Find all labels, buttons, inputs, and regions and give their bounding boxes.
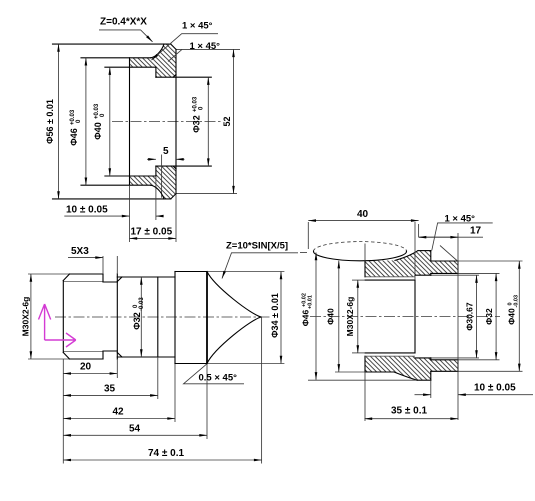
svg-text:-0.03: -0.03 bbox=[139, 297, 145, 311]
OD bottom right section + ext bbox=[431, 370, 458, 372]
chamfer left top bbox=[63, 274, 69, 281]
dim 5 stubs bbox=[147, 158, 156, 160]
svg-text:74 ± 0.1: 74 ± 0.1 bbox=[148, 448, 185, 459]
groove ext up left bbox=[102, 256, 104, 274]
dim phi40 text bbox=[93, 103, 106, 140]
right face bbox=[175, 49, 177, 193]
bore step face bbox=[155, 67, 157, 176]
groove left wall bbox=[102, 274, 104, 359]
flare bottom curve bbox=[394, 372, 417, 380]
OD46 bottom edge bbox=[81, 184, 151, 186]
dim M30 line bbox=[30, 274, 32, 359]
OD46 top edge bbox=[81, 57, 151, 59]
right face bbox=[457, 261, 459, 371]
svg-text:Φ40: Φ40 bbox=[326, 308, 336, 325]
dim phi32 v3 line bbox=[495, 273, 497, 359]
svg-text:42: 42 bbox=[113, 407, 125, 418]
svg-text:1 × 45°: 1 × 45° bbox=[190, 41, 221, 52]
dim phi34 line bbox=[280, 272, 282, 364]
right face ext down bbox=[175, 194, 177, 242]
rightface52 ext bottom bbox=[176, 193, 237, 195]
dim 35 v3 bbox=[365, 418, 459, 420]
groove right wall / section boundary bbox=[116, 274, 118, 359]
OD56 top edge bbox=[53, 43, 171, 45]
OD top right section + ext bbox=[431, 260, 458, 262]
svg-text:Φ40: Φ40 bbox=[93, 122, 103, 139]
svg-text:Φ32: Φ32 bbox=[192, 115, 202, 132]
bore40 bottom bbox=[105, 175, 156, 177]
bore chamfer bottom bbox=[173, 166, 176, 169]
centerline view2 bbox=[55, 316, 272, 318]
svg-text:20: 20 bbox=[80, 362, 92, 373]
dim M30 v3 text bbox=[345, 297, 355, 337]
ext 10dim down x430.8 bbox=[430, 380, 432, 398]
bore 32 top + ext right bbox=[431, 272, 458, 274]
svg-text:54: 54 bbox=[129, 423, 141, 434]
boundary x157.8 bbox=[157, 277, 159, 357]
chamfer bottom-right bbox=[171, 194, 176, 199]
thread major thin top bbox=[365, 276, 415, 278]
svg-text:10 ± 0.05: 10 ± 0.05 bbox=[66, 205, 108, 216]
dim phi30.67 text bbox=[465, 302, 475, 331]
svg-text:52: 52 bbox=[222, 116, 232, 126]
hatch upper wall v3 bbox=[365, 251, 458, 277]
bore chamfer top bbox=[173, 75, 176, 78]
dim 40 ext left bbox=[307, 222, 309, 249]
dim phi30.67 line bbox=[476, 275, 478, 358]
note 1x45 lower leader bbox=[168, 49, 182, 61]
dim phi40-0.03 line bbox=[518, 261, 520, 371]
svg-text:5: 5 bbox=[163, 146, 169, 157]
dim phi32 text bbox=[192, 96, 205, 133]
dim phi34 text bbox=[270, 293, 280, 338]
dim 35 bbox=[63, 394, 158, 396]
dim 10 line bbox=[64, 215, 129, 217]
thread major thin bottom bbox=[365, 355, 415, 357]
svg-text:Φ32: Φ32 bbox=[132, 312, 142, 329]
dim phi32 line bbox=[207, 77, 209, 166]
left face ext down bbox=[129, 185, 131, 242]
hatch lower wall v3 bbox=[365, 356, 458, 380]
flare lip ellipse dashed top bbox=[314, 242, 407, 252]
dim 17 line bbox=[130, 237, 177, 239]
svg-text:M30X2-6g: M30X2-6g bbox=[21, 297, 31, 337]
body left face ext bbox=[364, 244, 366, 422]
dim phi40 v3 text bbox=[326, 308, 336, 325]
phi34 OD bottom + ext right bbox=[175, 363, 207, 365]
ext left face down bbox=[62, 359, 64, 464]
bore32 bottom bbox=[156, 165, 211, 167]
thread minor top bbox=[63, 281, 103, 283]
flare outer curve bbox=[395, 251, 418, 261]
thread OD top (with M30 ext left) bbox=[70, 273, 104, 275]
svg-text:Φ34 ± 0.01: Φ34 ± 0.01 bbox=[270, 293, 280, 338]
svg-text:Φ56 ± 0.01: Φ56 ± 0.01 bbox=[45, 99, 55, 144]
dim M30 v3 line bbox=[357, 280, 359, 353]
dim phi46 text bbox=[69, 109, 82, 146]
svg-text:17: 17 bbox=[470, 226, 482, 237]
svg-text:Φ30.67: Φ30.67 bbox=[465, 302, 475, 331]
dim phi32s line bbox=[140, 277, 142, 357]
dim 17 line bbox=[419, 236, 483, 238]
dim 42 bbox=[63, 418, 175, 420]
dim M30 text bbox=[21, 297, 31, 337]
collar step top bbox=[430, 251, 432, 261]
parabola bottom bbox=[151, 185, 165, 199]
flare lip ellipse solid bottom bbox=[314, 251, 407, 261]
OD56 bottom edge bbox=[53, 198, 171, 200]
thread crest bottom + ext left bbox=[365, 352, 415, 354]
dim 10 stub bbox=[156, 215, 163, 217]
bore40 top bbox=[105, 66, 156, 68]
rightface52 ext top bbox=[176, 48, 240, 50]
note Zsin leader bbox=[222, 253, 298, 279]
groove ext line x161.6 bbox=[161, 155, 163, 198]
chamfer top-right bbox=[171, 44, 176, 49]
svg-text:1 × 45°: 1 × 45° bbox=[182, 21, 213, 32]
svg-text:Φ32: Φ32 bbox=[484, 308, 494, 325]
note 1x45 upper leader bbox=[152, 34, 219, 60]
svg-text:Φ46: Φ46 bbox=[69, 128, 79, 145]
svg-text:40: 40 bbox=[357, 209, 369, 220]
step face x175 bbox=[174, 272, 176, 364]
dim phi40 v3 line bbox=[338, 261, 340, 372]
dim phi46 v3 ext bottom bbox=[308, 379, 417, 381]
nose base line bbox=[206, 272, 208, 364]
collar bottom edge bbox=[417, 379, 431, 381]
collar top edge bbox=[418, 250, 431, 252]
svg-text:Z=10*SIN[X/5]: Z=10*SIN[X/5] bbox=[226, 241, 288, 252]
centerline view1 bbox=[112, 121, 222, 123]
bore step top bbox=[430, 273, 432, 275]
phi32 section OD bottom bbox=[117, 356, 175, 358]
ext 35 down bbox=[157, 357, 159, 399]
svg-text:5X3: 5X3 bbox=[71, 246, 89, 257]
body left face bbox=[364, 261, 366, 372]
step ext down bbox=[155, 176, 157, 220]
shaft left face bbox=[62, 281, 64, 353]
dim phi56 line bbox=[58, 44, 60, 199]
magenta axis icon bbox=[39, 304, 76, 347]
parabola top bbox=[151, 44, 165, 58]
dim 10 v3 bbox=[415, 394, 431, 396]
note Z leader bbox=[99, 30, 153, 42]
dim 52 line bbox=[233, 49, 235, 193]
svg-text:-0.03: -0.03 bbox=[513, 295, 519, 308]
ext 74 from tip down bbox=[261, 317, 263, 464]
dim 74 bbox=[63, 459, 261, 461]
bore 30.67 bottom + ext right bbox=[415, 357, 431, 359]
svg-text:M30X2-6g: M30X2-6g bbox=[345, 297, 355, 337]
bottom edge body bbox=[365, 371, 394, 373]
svg-text:Φ40: Φ40 bbox=[507, 308, 517, 325]
svg-text:35: 35 bbox=[104, 384, 116, 395]
dim phi46 line bbox=[85, 58, 87, 185]
dim 54 bbox=[63, 434, 207, 436]
svg-text:10 ± 0.05: 10 ± 0.05 bbox=[474, 383, 516, 394]
svg-text:+0.01: +0.01 bbox=[307, 295, 313, 309]
dim 17 ext bbox=[418, 224, 420, 237]
groove ext up right bbox=[116, 256, 118, 274]
left face bbox=[129, 58, 131, 185]
groove bottoms bbox=[103, 282, 117, 351]
right face ext full bbox=[457, 233, 459, 420]
dim phi56 text bbox=[45, 99, 55, 144]
dim 20 bbox=[63, 373, 117, 375]
dim phi32 v3 text bbox=[484, 308, 494, 325]
collar step bottom bbox=[430, 371, 432, 380]
bore 32 bottom + ext right bbox=[431, 359, 458, 361]
dim phi40 line bbox=[109, 67, 111, 176]
dim phi32s text bbox=[132, 297, 145, 330]
dim 52 text bbox=[222, 116, 232, 126]
thread crest top + ext left bbox=[365, 279, 415, 281]
dim phi46 v3 text bbox=[301, 293, 314, 326]
sine nose curve bbox=[207, 272, 262, 364]
phi32 section OD top bbox=[117, 276, 175, 278]
dim phi40-0.03 text bbox=[507, 295, 520, 325]
centerline view3 bbox=[310, 316, 500, 318]
thread end face bbox=[414, 280, 416, 353]
bore 30.67 top + ext right bbox=[415, 274, 431, 276]
ext 42 down bbox=[174, 364, 176, 423]
ext 40dim down x415 bbox=[414, 222, 416, 280]
ext 54 down bbox=[206, 364, 208, 440]
hatch lower wall bbox=[130, 166, 177, 199]
note 5X3 leader bbox=[68, 257, 103, 259]
note 1x45 v3 leader2 bbox=[440, 246, 458, 262]
thread minor bottom bbox=[63, 351, 103, 353]
bore32 top bbox=[156, 76, 211, 78]
bore step bottom bbox=[430, 358, 432, 360]
hatch upper wall bbox=[130, 44, 177, 77]
svg-text:17 ± 0.05: 17 ± 0.05 bbox=[131, 227, 173, 238]
note 0.5x45 leader bbox=[184, 364, 245, 384]
svg-text:Z=0.4*X*X: Z=0.4*X*X bbox=[100, 17, 147, 28]
dim phi40 v3 ext bottom bbox=[335, 371, 365, 373]
chamfer groove-side bbox=[117, 277, 122, 357]
lip ext dash left bbox=[300, 252, 307, 254]
thread OD bottom bbox=[70, 358, 104, 360]
note 1x45 v3 leader bbox=[432, 223, 493, 250]
svg-text:Φ46: Φ46 bbox=[301, 310, 311, 327]
svg-text:0.5 × 45°: 0.5 × 45° bbox=[199, 373, 238, 384]
chamfer left bottom bbox=[63, 353, 69, 360]
phi34 OD top + ext right bbox=[175, 271, 207, 273]
dim 40 line bbox=[308, 220, 418, 222]
dim phi46 v3 line bbox=[315, 253, 317, 380]
svg-text:35 ± 0.1: 35 ± 0.1 bbox=[391, 406, 428, 417]
